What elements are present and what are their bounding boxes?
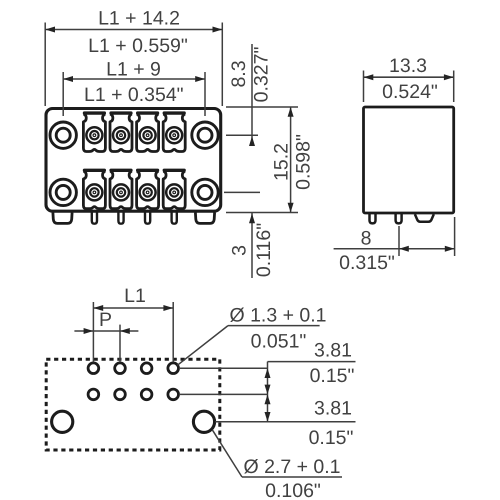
svg-text:Ø 2.7 + 0.1: Ø 2.7 + 0.1	[243, 456, 340, 478]
svg-text:3: 3	[228, 245, 250, 256]
svg-text:8: 8	[361, 228, 372, 250]
svg-text:0.315": 0.315"	[339, 252, 395, 274]
svg-text:0.116": 0.116"	[253, 223, 275, 277]
svg-text:0.15": 0.15"	[309, 427, 354, 449]
svg-text:0.051": 0.051"	[251, 330, 307, 352]
svg-text:3.81: 3.81	[314, 397, 352, 419]
svg-text:L1 + 0.559": L1 + 0.559"	[88, 35, 188, 57]
svg-text:L1 + 9: L1 + 9	[106, 59, 161, 81]
svg-text:0.15": 0.15"	[310, 365, 355, 387]
svg-text:8.3: 8.3	[228, 60, 250, 87]
svg-text:L1 + 0.354": L1 + 0.354"	[84, 84, 184, 106]
svg-text:0.106": 0.106"	[265, 480, 321, 500]
svg-text:P: P	[99, 309, 112, 331]
svg-text:L1: L1	[124, 285, 146, 307]
svg-text:3.81: 3.81	[314, 340, 352, 362]
svg-text:13.3: 13.3	[389, 55, 427, 77]
svg-text:15.2: 15.2	[270, 143, 292, 181]
svg-text:L1 + 14.2: L1 + 14.2	[98, 7, 180, 29]
svg-text:0.524": 0.524"	[382, 81, 438, 103]
svg-text:Ø 1.3 + 0.1: Ø 1.3 + 0.1	[229, 305, 326, 327]
svg-text:0.327": 0.327"	[250, 47, 272, 103]
svg-text:0.598": 0.598"	[292, 134, 314, 190]
